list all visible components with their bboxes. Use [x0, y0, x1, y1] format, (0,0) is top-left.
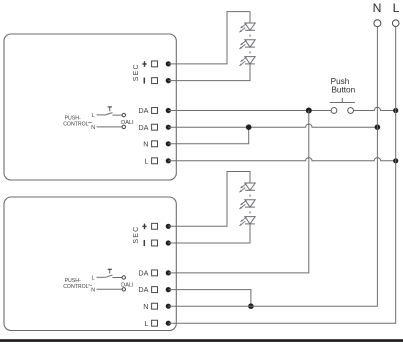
svg-text:L: L: [393, 1, 400, 15]
svg-text:L: L: [91, 113, 94, 119]
svg-text:L: L: [144, 319, 148, 328]
svg-text:SEC: SEC: [133, 226, 140, 244]
svg-text:CONTROL: CONTROL: [63, 284, 88, 290]
svg-text:DA: DA: [138, 123, 148, 132]
svg-text:N: N: [143, 139, 148, 148]
svg-text:N: N: [91, 125, 95, 131]
svg-text:N: N: [91, 288, 95, 294]
svg-text:N: N: [373, 1, 382, 15]
svg-text:SEC: SEC: [133, 63, 140, 81]
svg-text:L: L: [144, 156, 148, 165]
svg-text:Button: Button: [331, 85, 355, 94]
svg-text:L: L: [91, 276, 94, 282]
svg-text:DA: DA: [138, 269, 148, 278]
svg-text:N: N: [143, 302, 148, 311]
svg-text:DA: DA: [138, 285, 148, 294]
svg-text:DA: DA: [138, 106, 148, 115]
svg-text:CONTROL: CONTROL: [63, 122, 88, 128]
